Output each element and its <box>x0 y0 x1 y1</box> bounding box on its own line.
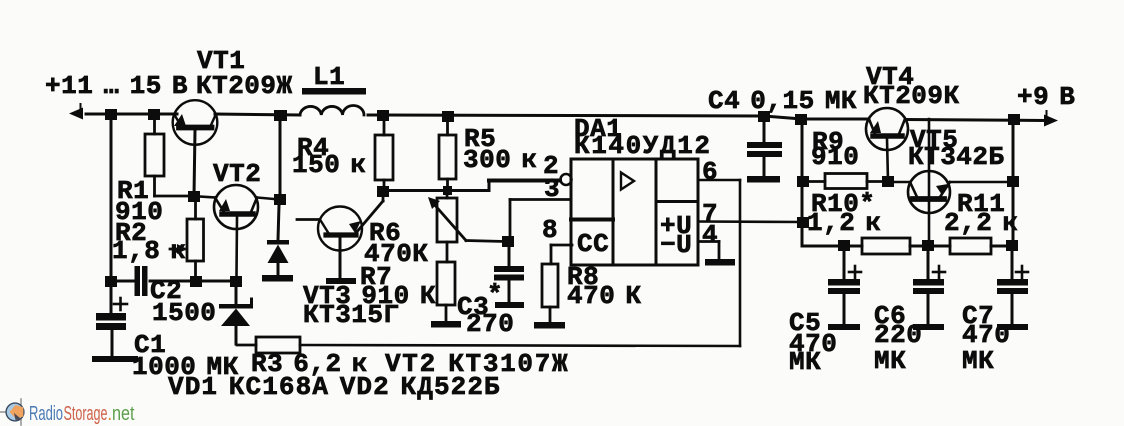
svg-text:270: 270 <box>466 309 514 339</box>
svg-text:+11 … 15 В: +11 … 15 В <box>45 71 188 101</box>
ground under R7 <box>431 321 461 328</box>
diode VD2 KD522B <box>267 205 289 275</box>
ground under C7 <box>997 324 1028 330</box>
capacitor C2 1500 <box>135 266 148 296</box>
capacitor C5 470mk <box>828 251 860 324</box>
node: R11 / C7 / bus <box>1006 240 1018 251</box>
node: VT2 base / VD1 row <box>230 276 242 287</box>
svg-text:КТ209К: КТ209К <box>863 81 960 111</box>
node: rail / R4 junction <box>377 110 389 121</box>
svg-text:8: 8 <box>542 215 558 245</box>
node: VT2 collector / VD2 <box>274 194 286 205</box>
node A: R1/VT1 base/VT2 emitter <box>188 191 200 202</box>
wire: pin 7 to right bus <box>698 220 803 223</box>
svg-text:2,2 к: 2,2 к <box>944 208 1019 238</box>
ground under VT3 emitter <box>326 278 356 284</box>
svg-text:6: 6 <box>702 157 718 187</box>
svg-text:470 К: 470 К <box>567 281 642 311</box>
resistor R8 <box>542 245 558 322</box>
wire: right bus (pin7/R9/bottom row) <box>802 119 1013 246</box>
svg-text:CC: CC <box>577 229 609 259</box>
wire: feedback line R3 to pin6 <box>300 180 740 346</box>
svg-text:300 к: 300 к <box>463 145 538 175</box>
node: pin7 / bus <box>797 217 809 228</box>
svg-text:*: * <box>487 280 503 310</box>
wire: pin 4 to ground <box>698 242 719 260</box>
node: rail / R9 bus junction <box>795 114 807 125</box>
wire: C2 row <box>111 280 236 283</box>
transistor VT3 KT315G <box>297 191 383 278</box>
node: rail / VT2 collector bus junction <box>274 110 287 121</box>
node: R6 wiper / pin3 / C3 <box>502 236 514 247</box>
svg-text:C4 0,15 МК: C4 0,15 МК <box>708 86 857 116</box>
svg-text:4: 4 <box>702 220 718 250</box>
resistor R5 <box>439 116 456 190</box>
resistor R3 (feedback) <box>237 337 300 353</box>
svg-text:КТ209Ж: КТ209Ж <box>196 71 293 101</box>
node: R9 left <box>797 176 809 187</box>
svg-text:1500: 1500 <box>152 298 216 328</box>
wire: pin8 stub <box>551 244 572 247</box>
svg-text:1,8 к: 1,8 к <box>112 236 187 266</box>
svg-text:+9 В: +9 В <box>1017 82 1075 112</box>
resistor R1 <box>145 114 190 196</box>
svg-text:КТ315Г: КТ315Г <box>303 300 400 330</box>
ground under C3 <box>495 302 524 308</box>
transistor VT2 KT3107Zh <box>200 185 274 276</box>
node: rail / output bus junction <box>1008 114 1020 125</box>
capacitor C4 0,15mk <box>747 116 782 176</box>
resistor R9 <box>802 174 888 189</box>
inductor L1 <box>300 106 364 115</box>
node: R5 bottom <box>443 186 452 195</box>
C1 plus sign <box>114 298 127 310</box>
node: left bus / C2 row <box>105 276 117 287</box>
node: VT5 emitter / bus <box>1007 176 1019 187</box>
ground under C1 <box>92 356 138 362</box>
node: rail / C4 junction <box>758 111 770 122</box>
DA1 amplifier triangle <box>621 173 634 190</box>
input arrow (left) <box>69 108 83 120</box>
RadioStorage.net watermark <box>0 399 135 425</box>
svg-text:МК: МК <box>874 346 906 376</box>
L1 underline bar <box>302 88 366 95</box>
svg-text:КТ342Б: КТ342Б <box>908 142 1005 172</box>
ground under R8 <box>534 322 565 329</box>
svg-text:1,2 к: 1,2 к <box>807 208 882 238</box>
output arrow (right, +9 B) <box>1044 115 1058 127</box>
svg-text:VD1 КС168А VD2 КД522Б: VD1 КС168А VD2 КД522Б <box>168 372 501 402</box>
svg-text:.net: .net <box>108 403 135 425</box>
svg-text:910: 910 <box>811 142 859 172</box>
svg-text:L1: L1 <box>313 62 345 92</box>
ground under C4 <box>747 176 780 183</box>
ground under VD2 <box>262 275 293 282</box>
capacitor C1 1000mk (polarized) <box>96 313 126 330</box>
wire: +V input rail left segment <box>86 114 1044 121</box>
op-amp DA1 K140UD12 <box>571 159 698 265</box>
capacitor C3 270 <box>494 247 524 302</box>
resistor R10 <box>862 238 910 254</box>
resistor R4 <box>375 116 393 191</box>
node: R9 right / VT4 base <box>882 176 894 187</box>
variable resistor R2 <box>170 202 204 281</box>
wire: left bus down <box>110 114 113 312</box>
ground under C5 <box>828 324 860 330</box>
wire: VT2 collector bus up to rail <box>279 120 282 196</box>
node: R4 bottom / VT3 collector <box>377 186 389 197</box>
svg-text:Radio: Radio <box>29 403 63 425</box>
transistor VT1 KT209Zh (PNP pass) <box>173 100 218 196</box>
ground under pin 4 <box>705 259 735 266</box>
svg-text:3: 3 <box>544 174 560 204</box>
transistor VT5 KT342B <box>888 119 1013 246</box>
variable resistor R6 body <box>433 190 504 262</box>
resistor R7 body <box>437 262 455 321</box>
capacitor C7 470mk <box>997 251 1028 324</box>
svg-text:МК: МК <box>789 347 821 377</box>
node: rail / R5 junction <box>442 111 454 122</box>
node: rail / left bus junction <box>105 109 117 120</box>
svg-text:VT2: VT2 <box>213 159 261 189</box>
svg-text:К140УД12: К140УД12 <box>574 131 712 161</box>
svg-text:−U: −U <box>660 230 692 260</box>
diode VD1 KS168A (zener to feedback) <box>219 287 253 344</box>
wire: pin 3 <box>510 200 571 241</box>
node: C5 tap <box>838 240 850 251</box>
ground under C6 <box>913 324 944 330</box>
resistor R11 <box>950 238 991 254</box>
node: R2 bottom row <box>190 276 202 287</box>
svg-text:150 к: 150 к <box>292 150 367 180</box>
svg-text:Storage: Storage <box>64 403 108 425</box>
wire: R4 node to pin2 riser <box>383 181 560 191</box>
node: rail / R1 junction <box>148 109 160 120</box>
pin 2 bubble <box>561 174 572 185</box>
svg-text:МК: МК <box>962 346 994 376</box>
node: VT5 base / C6 <box>922 240 934 251</box>
capacitor C6 220mk <box>913 251 944 324</box>
transistor VT4 KT209K <box>866 108 908 181</box>
